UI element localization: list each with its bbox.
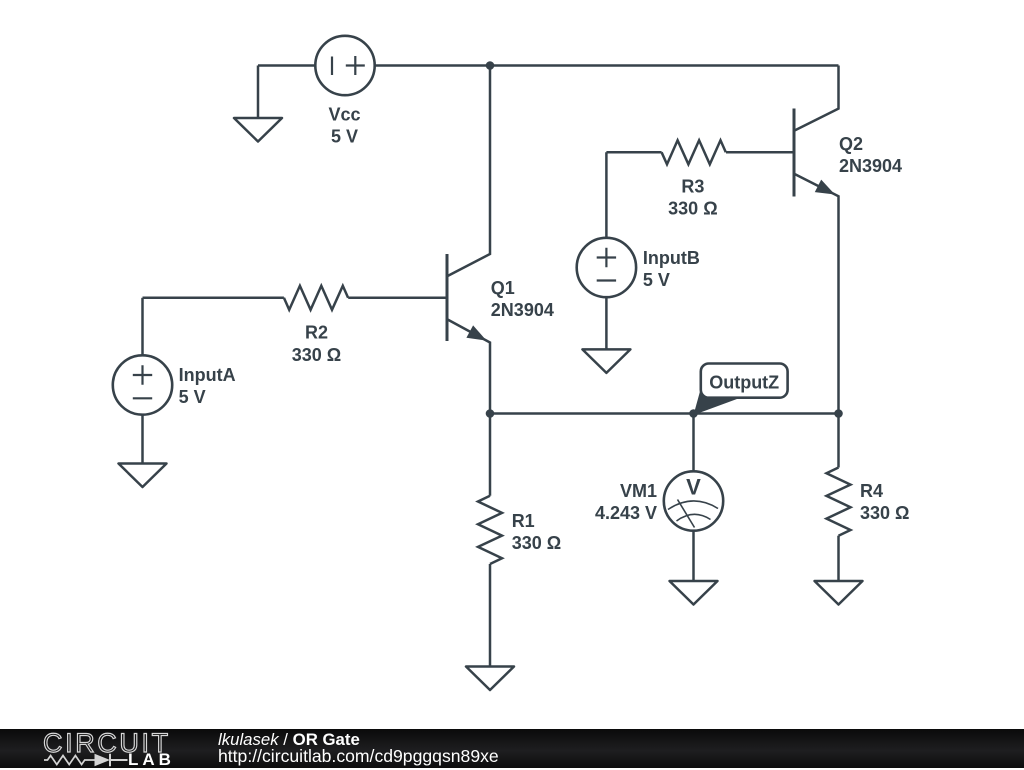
svg-text:Q2: Q2 xyxy=(839,134,863,154)
svg-text:330 Ω: 330 Ω xyxy=(292,345,341,365)
svg-text:5 V: 5 V xyxy=(179,387,206,407)
svg-text:R3: R3 xyxy=(681,177,704,197)
svg-text:InputB: InputB xyxy=(643,248,700,268)
svg-text:InputA: InputA xyxy=(179,365,236,385)
svg-text:OutputZ: OutputZ xyxy=(709,373,779,393)
svg-text:330 Ω: 330 Ω xyxy=(668,199,717,219)
svg-text:5 V: 5 V xyxy=(643,270,670,290)
svg-text:330 Ω: 330 Ω xyxy=(860,503,909,523)
svg-text:VM1: VM1 xyxy=(620,481,657,501)
svg-text:R4: R4 xyxy=(860,481,883,501)
svg-text:2N3904: 2N3904 xyxy=(839,156,902,176)
svg-text:R1: R1 xyxy=(512,511,535,531)
svg-text:330 Ω: 330 Ω xyxy=(512,533,561,553)
svg-text:2N3904: 2N3904 xyxy=(491,300,554,320)
svg-text:4.243 V: 4.243 V xyxy=(595,503,657,523)
svg-text:R2: R2 xyxy=(305,323,328,343)
svg-text:Vcc: Vcc xyxy=(328,105,360,125)
svg-text:Q1: Q1 xyxy=(491,278,515,298)
svg-text:V: V xyxy=(686,475,701,500)
svg-text:5 V: 5 V xyxy=(331,127,358,147)
